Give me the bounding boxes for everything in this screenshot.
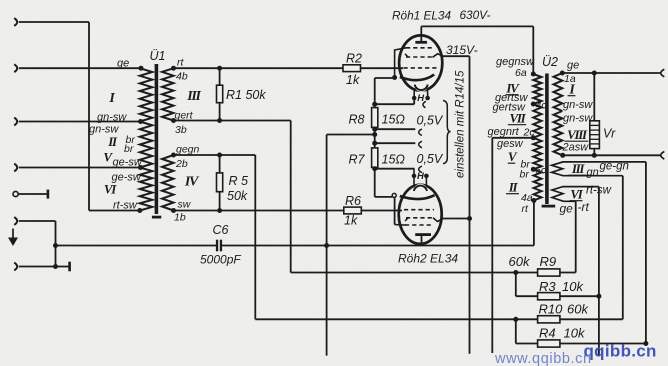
wire gn-sw [19, 121, 140, 123]
wire ge [19, 67, 141, 69]
tube1 grid g3 [406, 47, 435, 49]
node R8 bottom [372, 127, 377, 132]
wire R7t right [375, 142, 416, 144]
node rt-sw [137, 208, 142, 213]
resistor R6 [344, 207, 362, 214]
wire 2asw out [563, 154, 661, 156]
wire 315V [443, 55, 470, 57]
tube1 g2 left tick [405, 54, 408, 57]
wire bus R10-R4 [515, 319, 517, 343]
wire 4a down [533, 201, 535, 246]
measure hook 1 [423, 101, 426, 107]
wire R7 down [374, 167, 376, 197]
tube2 cathode terminal [392, 193, 396, 197]
node R5 bottom [217, 208, 222, 213]
winding III flag [552, 162, 646, 176]
wire 1a ge [562, 72, 661, 74]
resistor R1 [219, 68, 221, 85]
wire 1b to R6 [174, 210, 344, 212]
node 6c [531, 167, 536, 172]
resistor R8 [372, 108, 378, 128]
winding Ü2-left VII [533, 104, 541, 138]
tube2 g3 tie [395, 224, 406, 226]
node tube1 cathode [392, 75, 397, 80]
node R1 bottom [217, 118, 222, 123]
node ge-sw [138, 165, 143, 170]
tube2 grid g2 [406, 217, 433, 219]
tube2 cathode [400, 195, 435, 199]
node R4 right [643, 341, 648, 346]
winding Ü1-right III [162, 68, 174, 120]
tube1 anode [415, 41, 427, 44]
wire R8-R7 [374, 127, 376, 147]
node Vr top [592, 71, 597, 76]
wire cathode left [375, 77, 395, 79]
wire g2 to 315V line [443, 218, 470, 220]
node R3 right [596, 294, 601, 299]
node 315V line [467, 216, 472, 221]
node C6-tap [372, 132, 377, 137]
node 2asw [560, 153, 565, 158]
input terminal 3 [14, 118, 17, 126]
node R5 top [217, 153, 222, 158]
wire 2b to R10 [255, 318, 516, 320]
tube2 g2 left tick [405, 218, 408, 221]
tube2 anode [415, 233, 431, 236]
tube2 grid g1 [404, 209, 434, 211]
tube1 grid g1 [404, 67, 437, 69]
wire 2c gesw [492, 137, 533, 139]
transformer Ü1 core [155, 64, 159, 214]
node ge [139, 66, 144, 71]
winding VI flag [552, 187, 599, 202]
node gegn 2b [171, 153, 176, 158]
resistor R10 [538, 316, 560, 323]
tube1 heater pins [413, 91, 415, 98]
terminal bar [47, 190, 50, 199]
tube1 anode lead [420, 26, 422, 41]
resistor Vr [593, 73, 595, 121]
winding Ü2-left V [533, 138, 541, 170]
resistor R3 [538, 293, 560, 300]
winding Ü2-right VIII [554, 111, 563, 155]
ground [12, 229, 14, 239]
wire [88, 22, 90, 211]
wire 3b down [290, 121, 292, 273]
wire 2b down [254, 155, 256, 319]
input terminal 1 [14, 18, 17, 26]
wire [19, 220, 56, 222]
wire R7b right [375, 168, 415, 170]
open terminal [13, 191, 18, 196]
tube2 top dome [414, 184, 427, 197]
node R1 top [217, 66, 222, 71]
node [53, 264, 58, 269]
winding Ü2-right I [554, 73, 563, 111]
wire bus to Ue2-4a [327, 245, 534, 247]
wire heater2 up [413, 169, 415, 176]
wire gn down [622, 176, 624, 320]
wire [19, 21, 89, 23]
node [324, 243, 329, 248]
node R9 left [513, 270, 518, 275]
wire 4b to R2 [174, 67, 344, 69]
input terminal 2 [14, 64, 17, 72]
wire to R7 junction [327, 134, 375, 136]
node 4a [531, 198, 536, 203]
tube1 g2 hook [433, 54, 444, 58]
tube2 heater pins [413, 178, 415, 186]
tube1 cathode [400, 75, 434, 81]
wire bus to C6 [56, 245, 217, 247]
wire [89, 210, 140, 212]
node ground-bus [53, 243, 58, 248]
wire down to R8 [374, 78, 376, 108]
node 1a [560, 71, 565, 76]
node sw 1b [171, 208, 176, 213]
resistor R5 [219, 155, 221, 173]
wire R2 to g1 [361, 67, 404, 69]
tube2 g2 hook [433, 218, 443, 222]
tube1 base dome [415, 79, 428, 92]
wire C6 node up [326, 135, 328, 246]
wire R8b right [375, 128, 416, 130]
wire 630V [421, 25, 533, 27]
output hook 1 [661, 69, 665, 77]
node 6a [531, 72, 536, 77]
transformer Ü2 core [545, 74, 549, 205]
tube1 g3 tie [395, 48, 406, 78]
winding Ü2-left IV [533, 74, 541, 104]
input terminal 6 [14, 263, 17, 271]
node gert 3b [171, 118, 176, 123]
wire ge-gn down [645, 162, 647, 344]
wire to tube2 cathode [375, 196, 393, 198]
wire R6 to g1 [361, 210, 402, 212]
wire C6 to anode bus [222, 245, 327, 247]
wire 2b [174, 154, 256, 156]
wire cathode down [394, 197, 396, 224]
node gn-sw [138, 119, 143, 124]
wire heater1 down [413, 98, 415, 104]
wire ge-rt down [575, 201, 577, 272]
brace [443, 101, 451, 164]
node R7 top [372, 141, 377, 146]
tube2 anode lead [421, 236, 423, 246]
winding Ü1-left VI [140, 168, 153, 211]
node 2c [531, 135, 536, 140]
winding Ü2-left II [534, 169, 542, 200]
resistor R2 [343, 65, 361, 72]
node R7 bottom [372, 166, 377, 171]
measure hook 4 [419, 166, 422, 173]
tube U1 Röh1 envelope [399, 35, 442, 90]
tube2 grid g3 [405, 224, 433, 226]
node R10 left [513, 317, 518, 322]
wire 3b to R9 [291, 272, 516, 274]
input terminal 5 [14, 217, 17, 225]
input terminal 4 [14, 164, 17, 172]
wire bus R9-R3 [515, 273, 517, 297]
wire gesw rail [491, 138, 493, 353]
wire hanging [326, 246, 328, 356]
winding Ü1-left II+V [140, 122, 153, 168]
measure hook 3 [419, 141, 422, 148]
resistor R7 [372, 148, 378, 168]
wire rt-sw down [598, 187, 600, 357]
measure hook 2 [419, 129, 422, 136]
output hook 2 [661, 152, 665, 160]
capacitor C6 [216, 240, 218, 252]
winding Ü1-right IV [162, 155, 174, 211]
resistor R9 [538, 269, 560, 276]
wire [19, 266, 69, 268]
node cathode-R8 [372, 102, 377, 107]
wire stub [18, 193, 47, 195]
terminal bar [68, 262, 71, 272]
tube U2 Röh2 envelope [399, 185, 442, 244]
node 4c [531, 102, 536, 107]
winding Ü1-left I [140, 68, 153, 121]
resistor R4 [538, 340, 560, 347]
wire 630V down to 6a [532, 26, 534, 74]
wire heater1 to R8 [375, 103, 415, 105]
wire ge-sw [19, 167, 140, 169]
wire 315V rail [469, 56, 471, 354]
node rt 4b [171, 66, 176, 71]
wire [55, 221, 57, 267]
tube1 grid g2 [406, 56, 433, 58]
wire 3b [174, 120, 291, 122]
node Vr bottom [592, 153, 597, 158]
